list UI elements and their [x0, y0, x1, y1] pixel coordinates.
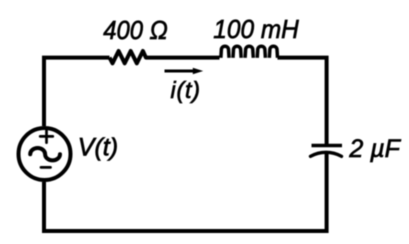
svg-text:i(t): i(t): [171, 77, 201, 103]
svg-text:400 Ω: 400 Ω: [103, 15, 168, 45]
svg-text:2 µF: 2 µF: [348, 135, 401, 163]
svg-text:V(t): V(t): [78, 134, 118, 162]
svg-text:100 mH: 100 mH: [213, 14, 299, 44]
